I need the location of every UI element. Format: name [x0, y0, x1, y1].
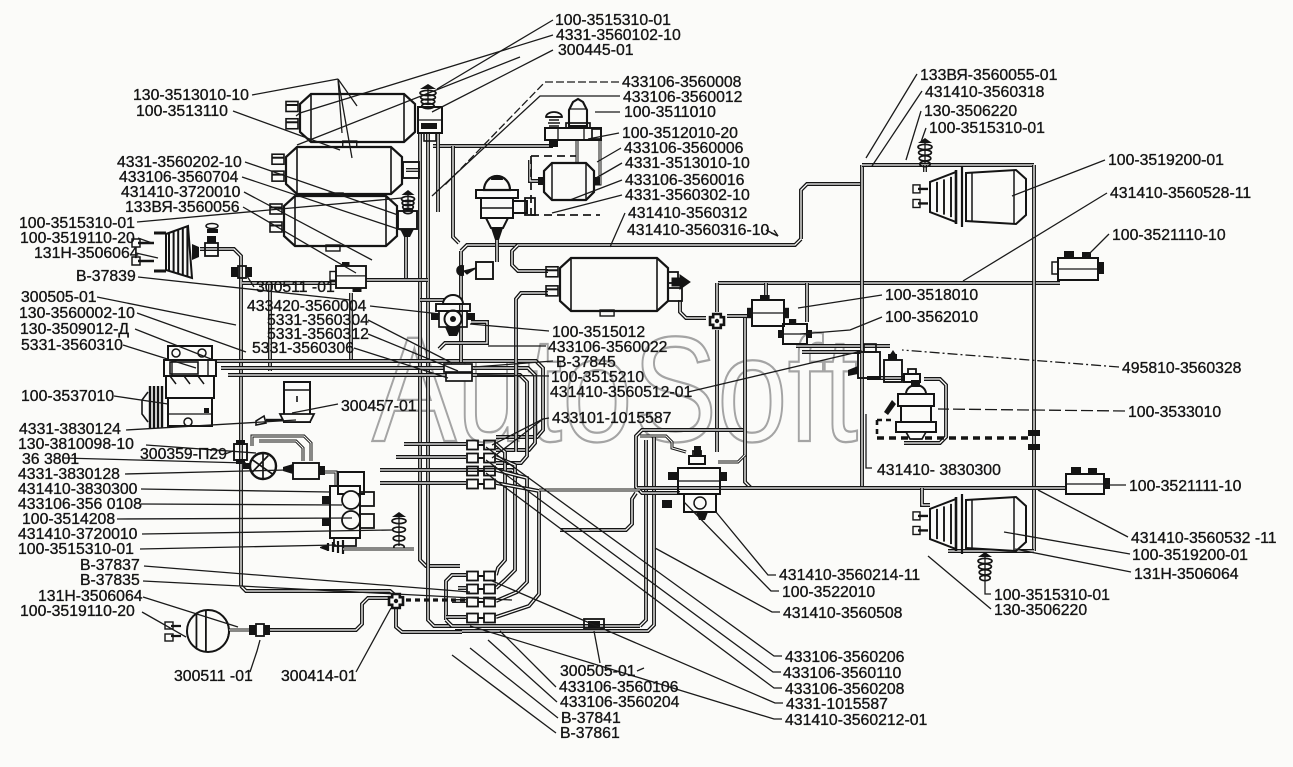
leader 431410-3560316-10 arrow	[766, 230, 778, 236]
brake chamber with accumulator (bottom right)	[918, 516, 928, 531]
svg-text:431410-3560316-10: 431410-3560316-10	[627, 222, 770, 239]
wire right rect bottom edge	[948, 549, 1034, 553]
svg-text:431410-3560318: 431410-3560318	[925, 84, 1045, 101]
svg-text:130-3509012-Д: 130-3509012-Д	[20, 321, 129, 338]
svg-text:100-3537010: 100-3537010	[21, 388, 114, 405]
wire drop to lower valve B	[805, 283, 809, 322]
leaders 433420 group	[370, 306, 440, 314]
svg-text:130-3560002-10: 130-3560002-10	[19, 305, 135, 322]
svg-text:В-37861: В-37861	[560, 725, 620, 742]
leader 100-3537010	[114, 396, 168, 404]
wire valveB to module	[796, 344, 890, 348]
wire long run y245	[461, 239, 801, 251]
union fitting col2-4	[467, 614, 478, 623]
leader fan bottom-right to fittings	[486, 447, 782, 656]
wire y300 link	[420, 298, 462, 302]
wire center tank right fittings down	[680, 300, 706, 318]
brake valve 100-3514208	[330, 486, 360, 538]
svg-text:5331-3560310: 5331-3560310	[21, 337, 123, 354]
svg-text:100-3515310-01: 100-3515310-01	[929, 120, 1045, 137]
svg-text:300505-01: 300505-01	[21, 289, 97, 306]
svg-text:100-3515310-01: 100-3515310-01	[18, 541, 134, 558]
leaders left column lower	[126, 420, 296, 430]
svg-text:431410- 3830300: 431410- 3830300	[877, 462, 1001, 479]
wire chamber rod to coupling	[229, 629, 250, 632]
valve 100-3518010	[752, 300, 784, 326]
wire spring link right-top	[923, 165, 927, 172]
coupling 300505-01 bottom	[584, 619, 604, 629]
wire chamber bottom-left to cross	[268, 598, 388, 630]
brake chamber 100-3519200-01 (top right)	[918, 189, 928, 204]
svg-text:100-3519200-01: 100-3519200-01	[1132, 547, 1248, 564]
union fitting col2-1	[467, 572, 478, 581]
leader 100-3519110-20 left	[138, 238, 152, 243]
assembly 495810-3560328 module	[858, 352, 880, 378]
leader 131Н-3506064 left	[136, 253, 158, 258]
leader 433106-3560006	[597, 148, 621, 162]
wire long run y488	[638, 486, 1066, 490]
wire right rect top edge	[862, 163, 1034, 167]
leader В-37839	[138, 277, 350, 300]
wire compressor outputs bundle	[215, 361, 543, 437]
wire bleed valve to brake valve link	[325, 472, 336, 486]
drain valve cone on center tank	[672, 275, 690, 289]
svg-text:431410-3560532 -11: 431410-3560532 -11	[1131, 530, 1277, 547]
wire valve box inner	[640, 436, 686, 452]
wire cross down to bottom run	[396, 607, 462, 632]
wire relay loop right	[904, 379, 946, 443]
svg-text:100-3521110-10: 100-3521110-10	[1112, 227, 1226, 244]
leader 100-3519110-20 lower	[142, 612, 186, 637]
svg-text:431410-3560508: 431410-3560508	[783, 605, 903, 622]
wire x453 feed	[453, 146, 459, 243]
wire y283 down to regulator 433420	[268, 285, 272, 371]
valve 431410-3830300 small	[293, 463, 319, 479]
union fitting col1-3	[467, 467, 478, 476]
svg-text:433106-3560206: 433106-3560206	[785, 649, 905, 666]
wire cross x717	[715, 283, 719, 312]
leaders top-centre labels	[437, 20, 553, 89]
leader 100-3519200-01 bottom	[1004, 532, 1130, 554]
air bleed valve 433106 center	[476, 262, 493, 279]
leaders 431410-3560214 group	[716, 512, 776, 575]
svg-text:300457-01: 300457-01	[341, 398, 417, 415]
cross junction center-right	[710, 314, 724, 328]
leaders 433106-3560008/12	[445, 82, 619, 185]
wire valve C14 down to bundle	[349, 293, 353, 361]
leaders 4331-3560202-10 group	[245, 162, 398, 215]
svg-text:100-3513110: 100-3513110	[136, 103, 228, 120]
wire valve C26 elbow right	[718, 455, 745, 462]
leaders centre right labels	[470, 324, 549, 331]
svg-text:130-3513010-10: 130-3513010-10	[133, 87, 249, 104]
coil hose fitting 100-3515310-01 on pipe	[328, 540, 343, 554]
wire dashed route around condenser	[531, 155, 576, 157]
svg-text:300511 -01: 300511 -01	[174, 668, 253, 685]
wire protection valve loop	[439, 322, 487, 349]
svg-text:130-3506220: 130-3506220	[994, 602, 1087, 619]
leader 100-3515310-01 bottom right	[985, 576, 991, 594]
wire tank2 neck to vertical	[406, 168, 420, 172]
svg-text:431410-3560528-11: 431410-3560528-11	[1110, 185, 1251, 202]
union fitting col2-2	[467, 585, 478, 594]
wire x745 long drop	[745, 318, 751, 488]
leader 300457-01	[292, 404, 338, 413]
wire tank1 valve down second	[436, 133, 440, 212]
svg-text:433106-3560110: 433106-3560110	[783, 665, 902, 682]
wire right rect right edge x1034	[1032, 165, 1036, 551]
leader 495810-3560328	[902, 350, 1119, 367]
leader 300359-П29	[225, 451, 233, 454]
wire run B y283	[718, 281, 1060, 285]
tank reservoir 431410-3560312 (center)	[560, 258, 668, 311]
svg-text:100-3511010: 100-3511010	[624, 104, 716, 121]
svg-text:100-3518010: 100-3518010	[885, 287, 978, 304]
wire col1 to col2 nested loops right side	[496, 444, 505, 575]
wire T drop to valve 3518010	[764, 283, 768, 301]
wire centre tank upper port elbow to run	[512, 245, 548, 271]
svg-text:431410-3560512-01: 431410-3560512-01	[550, 384, 693, 401]
valve 100-3521111-10	[1066, 474, 1104, 494]
protection valve 100-3515012	[443, 295, 463, 304]
valve 100-3521110-10	[1058, 258, 1098, 280]
tee fitting above relay	[904, 369, 920, 382]
leader 100-3512010-20	[588, 133, 619, 139]
brake chamber 131Н-3506064 (rear)	[171, 626, 181, 636]
svg-text:431410-3560212-01: 431410-3560212-01	[785, 712, 928, 729]
union fitting col2-3	[467, 598, 478, 607]
leader 100-3515310-01 left	[137, 198, 402, 222]
compressor 100-3537010	[149, 386, 151, 428]
svg-text:100-3522010: 100-3522010	[782, 584, 875, 601]
valve block on tank1 right 300445-01	[418, 107, 442, 133]
tank reservoir middle	[286, 147, 402, 194]
tank reservoir 130-3513010-10 (upper)	[300, 94, 415, 142]
tank reservoir lower	[284, 196, 397, 246]
wire condenser left leg	[530, 160, 542, 181]
svg-text:4331-3513010-10: 4331-3513010-10	[625, 155, 750, 172]
cross fitting 300414-01	[389, 594, 403, 608]
svg-text:300511 -01: 300511 -01	[256, 279, 335, 296]
tee on tank2 neck	[403, 162, 419, 178]
union fitting col1-1	[467, 441, 478, 450]
condenser reservoir 4331-3513010-10	[544, 163, 594, 200]
svg-text:100-3521111-10: 100-3521111-10	[1129, 478, 1242, 495]
leader 130-3560002-10	[137, 313, 246, 352]
spring 130-3506220 bottom	[984, 554, 986, 577]
spring safety valve 100-3515310-01 top	[427, 86, 429, 105]
wire gauge loop pipes	[252, 436, 311, 461]
leader 131Н-3506064 lower	[143, 597, 238, 627]
wire valve14 to verticals y280	[242, 281, 336, 285]
union fitting col1-4	[467, 480, 478, 489]
svg-text:100-3562010: 100-3562010	[885, 309, 978, 326]
leader 431410-3560312	[610, 213, 625, 247]
wire dashed from cross to col2	[406, 598, 466, 601]
leaders bottom centre labels	[637, 668, 644, 671]
leaders 433101-1015587	[492, 418, 549, 445]
wire cross to valve 3518010	[727, 314, 750, 318]
wire valve box outer top	[636, 430, 745, 493]
wire verticals x420/x428 down to bottom loop	[420, 352, 460, 566]
leader 100-3513110	[233, 111, 340, 150]
leader 100-3521110-10	[1086, 234, 1109, 257]
leader fan 130-3513010-10	[252, 79, 338, 95]
wire x801 vertical up and to right rect	[801, 184, 862, 239]
leader 431410-3560532-11	[1038, 490, 1128, 537]
svg-text:131Н-3506064: 131Н-3506064	[1134, 566, 1239, 583]
svg-text:133ВЯ-3560055-01: 133ВЯ-3560055-01	[920, 67, 1058, 84]
svg-text:В-37839: В-37839	[76, 268, 136, 285]
leader 300511-01 upper	[247, 276, 254, 287]
svg-text:300445-01: 300445-01	[558, 42, 634, 59]
leader 4331-3560302-10	[552, 195, 622, 213]
leader 100-3521111-10	[1106, 484, 1126, 486]
wire fourth loop from brake valve	[380, 470, 519, 477]
air dryer 100-3511010 assembly	[569, 99, 587, 126]
svg-text:100-3519110-20: 100-3519110-20	[20, 603, 135, 620]
control valve 100-3515310-01 left	[205, 243, 218, 256]
wire dashed control line y438	[877, 436, 1030, 439]
leader 100-3511010	[595, 111, 620, 113]
leader 431410-3560528-11	[963, 193, 1107, 281]
valve 133ВЯ-3560056 on tank3	[398, 211, 417, 229]
svg-text:300359-П29: 300359-П29	[140, 446, 227, 463]
svg-text:300414-01: 300414-01	[281, 668, 357, 685]
wire chamber-to-downpipe left	[200, 249, 241, 586]
wire col1 fittings left legs	[404, 442, 466, 446]
cylinder assembly 300457-01	[284, 382, 310, 422]
spring 130-3506220 top	[924, 140, 926, 163]
leader 5331-3560310	[123, 345, 196, 368]
svg-text:431410-3560312: 431410-3560312	[628, 205, 747, 222]
brake chamber 131Н-3506064 (front)	[138, 243, 154, 261]
leader В-37835	[143, 581, 512, 600]
leader 300414-01	[356, 608, 391, 672]
svg-text:100-3519200-01: 100-3519200-01	[1108, 152, 1224, 169]
valve В-37839 zone	[336, 266, 366, 288]
wire energy chamber right-bottom stubs	[922, 488, 930, 505]
wire col2 left legs	[446, 575, 466, 620]
svg-text:431410-3560214-11: 431410-3560214-11	[779, 567, 920, 584]
capsule 300359-П29 fuse link	[234, 444, 247, 460]
wire x461 drop from run y245 through bleed valve	[459, 251, 463, 362]
leaders right top 133ВЯ group	[866, 74, 917, 158]
leader 100-3519200-01 top	[1012, 160, 1105, 196]
leader 300505-01 left	[97, 297, 236, 325]
brake crane 100-3512010-20	[484, 176, 510, 190]
valve top stem	[694, 446, 701, 456]
wire bell valve drop	[495, 240, 499, 262]
svg-text:300505-01: 300505-01	[560, 663, 636, 680]
pressure gauge 36 3801	[250, 453, 276, 479]
leader 431410-3830300 right	[866, 414, 872, 468]
union fitting col1-2	[467, 454, 478, 463]
spring valve on tank3	[407, 192, 409, 210]
wire coil to valve pipe y549	[343, 548, 414, 551]
relay valve 100-3533010	[906, 385, 926, 394]
svg-text:133ВЯ-3560056: 133ВЯ-3560056	[125, 199, 240, 216]
wire centre tank lower port elbow down	[516, 293, 548, 452]
svg-text:131Н-3506064: 131Н-3506064	[34, 245, 139, 262]
svg-text:4331-1015587: 4331-1015587	[786, 696, 888, 713]
svg-text:100-3533010: 100-3533010	[1128, 404, 1221, 421]
tee on valve top	[689, 451, 705, 464]
two-section valve 431410-3560214-11	[678, 468, 720, 494]
leader 300511-01 lower	[250, 640, 260, 672]
svg-text:4331-3560302-10: 4331-3560302-10	[625, 187, 750, 204]
leader 100-3562010	[800, 317, 882, 334]
svg-text:130-3506220: 130-3506220	[924, 103, 1017, 120]
valve lower 100-3562010 feed	[783, 324, 807, 344]
leader 433106-3560016	[570, 180, 622, 200]
leader 4331-3513010-10	[596, 163, 622, 178]
svg-text:В-37835: В-37835	[80, 572, 140, 589]
leader 130-3509012-Д	[135, 329, 216, 361]
wire relay feed y378	[867, 376, 905, 380]
wire tank1 valve down	[426, 133, 430, 352]
spring 431410-3720010	[398, 514, 400, 546]
leader 100-3518010	[798, 295, 882, 308]
hose B-37845 white boxes	[444, 364, 472, 372]
wire dryer drop to condenser	[576, 141, 579, 162]
svg-text:5331-3560306: 5331-3560306	[252, 340, 354, 357]
wire left vertical to cross top	[241, 586, 396, 596]
wire dryer manifold elbow down to condenser right	[594, 141, 600, 184]
wire bottom loop runs	[446, 620, 640, 626]
wire run y490 from loops to valve box	[539, 489, 640, 492]
hose coupling 300511-01 lower	[249, 625, 256, 635]
wire tank3 valve down to valve 300511 area	[404, 237, 408, 280]
wire tank1 valve to dryer run y146	[433, 144, 553, 148]
leader В-37837	[144, 566, 470, 592]
svg-text:433106-3560204: 433106-3560204	[560, 694, 680, 711]
leader 131Н-3506064 right	[1015, 549, 1131, 572]
hose coupling 300511-01 upper	[231, 267, 238, 277]
wire right rect left edge x862	[860, 165, 864, 488]
wire valve left feed lower	[560, 493, 636, 530]
fitting on rect edge x1034	[1028, 430, 1040, 436]
leader 130-3506220 bottom	[928, 556, 991, 609]
leader 100-3533010	[938, 409, 1125, 411]
svg-text:433101-1015587: 433101-1015587	[552, 410, 671, 427]
svg-text:495810-3560328: 495810-3560328	[1122, 360, 1242, 377]
wire second vertical x420	[418, 133, 422, 352]
inducer valve small	[884, 360, 902, 382]
